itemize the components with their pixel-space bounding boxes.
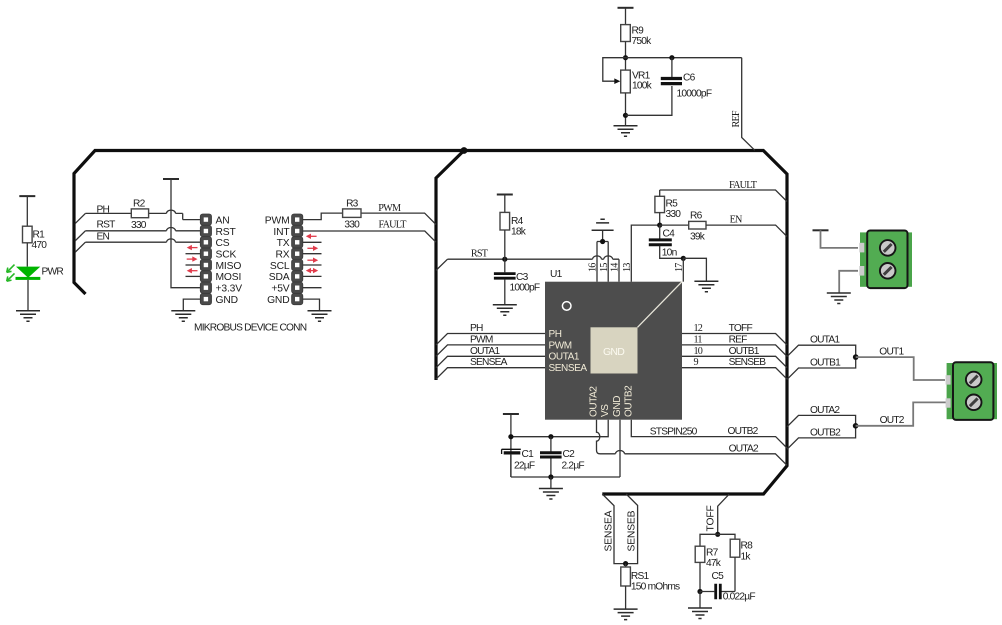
wire GND header1 [183, 299, 200, 310]
node RST R4 junction [502, 257, 507, 262]
svg-text:OUTA1: OUTA1 [549, 352, 580, 363]
wire C1 bottom [510, 454, 512, 477]
svg-text:FAULT: FAULT [729, 180, 758, 191]
svg-text:+5V: +5V [271, 284, 289, 295]
node RS1 top [623, 561, 628, 566]
wire R7 to gnd node [699, 562, 701, 591]
node bus junction [461, 147, 468, 154]
wire R1 to LED [26, 243, 28, 267]
wire OUT2 to terminal [856, 402, 946, 425]
resistor R4 [500, 212, 527, 237]
connector CN2 output terminal [946, 362, 997, 420]
arrow red SCL [307, 258, 318, 263]
wire pin9 SENSEB to bus [682, 368, 787, 379]
svg-text:16: 16 [588, 263, 599, 272]
node C2 bottom [548, 474, 553, 479]
wire hop PH over 3.3V [167, 210, 176, 213]
wire OUTB2 rail [631, 420, 787, 448]
svg-text:EN: EN [730, 214, 743, 225]
svg-text:C1: C1 [522, 449, 535, 460]
wire FAULT to R5 [659, 190, 661, 196]
svg-text:OUTB1: OUTB1 [810, 357, 841, 368]
wire node to C5 [700, 591, 735, 593]
wire TOFF to R7 [700, 534, 718, 546]
svg-text:SENSEB: SENSEB [729, 357, 767, 368]
svg-text:SCK: SCK [216, 250, 237, 261]
node pin16 pin15 tie [600, 239, 605, 244]
ground pin17 [694, 281, 718, 292]
svg-text:OUTB2: OUTB2 [810, 428, 841, 439]
wire pin11 REF to bus [682, 345, 787, 356]
wire OUTA1 to IC [436, 356, 545, 367]
ground C3 [493, 305, 517, 316]
wire 3.3V vertical [171, 179, 200, 288]
wire MISO stub [186, 264, 201, 266]
svg-text:RST: RST [97, 220, 116, 231]
connector header1 MIKROBUS left [200, 214, 242, 306]
capacitor C2 [540, 449, 584, 472]
svg-text:OUTA1: OUTA1 [810, 335, 840, 346]
svg-text:22µF: 22µF [514, 461, 535, 472]
connector CN1 supply terminal [859, 231, 912, 289]
node OUT2 [853, 423, 859, 429]
wire VIN to terminal [821, 230, 859, 248]
svg-text:0.022µF: 0.022µF [723, 592, 756, 603]
svg-text:C4: C4 [663, 229, 676, 240]
wire bus main harness [74, 151, 787, 495]
capacitor C5 [712, 571, 756, 603]
svg-text:PWM: PWM [378, 203, 401, 214]
resistor R7 [695, 546, 722, 569]
svg-text:OUTB1: OUTB1 [729, 346, 760, 357]
svg-text:R5: R5 [666, 199, 679, 210]
node REF top [623, 55, 628, 60]
wire GND header2 [303, 299, 320, 310]
svg-text:12: 12 [694, 323, 703, 334]
svg-text:470: 470 [32, 240, 48, 251]
svg-text:10n: 10n [662, 248, 677, 259]
svg-text:SCL: SCL [270, 261, 290, 272]
svg-text:TX: TX [277, 238, 290, 249]
node VR1 bottom [623, 113, 628, 118]
ground VIN terminal [827, 293, 851, 304]
ground header1 [171, 311, 195, 322]
wire OUTA2 exit [787, 415, 856, 426]
wire node to RS1 [625, 564, 627, 567]
node C6 top [669, 55, 674, 60]
wire EN from bus to header [75, 242, 200, 252]
svg-text:OUT2: OUT2 [880, 415, 905, 426]
svg-text:SDA: SDA [269, 272, 290, 283]
svg-text:SENSEA: SENSEA [549, 363, 588, 374]
svg-text:REF: REF [729, 334, 748, 345]
svg-text:MOSI: MOSI [216, 272, 242, 283]
power R9 [618, 7, 634, 9]
LED PWR [7, 265, 64, 282]
wire C4 to pin17 node [660, 246, 684, 259]
resistor R8 [730, 539, 753, 562]
ground C2 [539, 489, 563, 500]
wire FAULT from INT [303, 231, 436, 242]
wire hop RST over 3.3V [167, 228, 176, 231]
wire R7 node to gnd [699, 592, 701, 608]
svg-text:R1: R1 [33, 230, 46, 241]
resistor RS1 [621, 567, 680, 593]
power +3.3V R1 [19, 195, 35, 197]
svg-text:EN: EN [97, 232, 110, 243]
svg-text:9: 9 [694, 357, 699, 368]
wire pin17 [682, 258, 684, 281]
wire pin10 OUTB1 to bus [682, 356, 787, 367]
wire REF to bus [742, 58, 755, 151]
svg-text:OUTA1: OUTA1 [470, 346, 500, 357]
svg-text:INT: INT [273, 227, 290, 238]
power +3.3V header [163, 178, 179, 180]
svg-text:18k: 18k [511, 227, 527, 238]
wire R4 to RST [504, 230, 506, 259]
svg-text:RST: RST [471, 248, 489, 259]
svg-text:R2: R2 [133, 199, 146, 210]
wire VS rail [511, 414, 608, 477]
connector header2 MIKROBUS right [265, 214, 303, 306]
wire OUTA1 exit [787, 345, 856, 357]
svg-text:CS: CS [216, 238, 230, 249]
arrow red MOSI [187, 268, 198, 273]
svg-text:R4: R4 [511, 216, 524, 227]
ground VR1 [614, 126, 638, 137]
svg-text:C6: C6 [683, 73, 696, 84]
wire FAULT top [660, 190, 787, 202]
svg-text:100k: 100k [632, 81, 653, 92]
svg-text:R3: R3 [346, 199, 359, 210]
svg-text:14: 14 [610, 263, 621, 272]
power VIN terminal [813, 229, 829, 231]
ground R1 [16, 311, 40, 322]
svg-text:PWR: PWR [42, 267, 64, 278]
svg-text:C5: C5 [712, 571, 725, 582]
wire terminal to gnd [839, 271, 858, 293]
node C2 top [548, 434, 553, 439]
node TOFF [715, 532, 720, 537]
wire R8 to C5 [734, 557, 736, 591]
svg-text:C3: C3 [516, 272, 529, 283]
svg-text:TOFF: TOFF [706, 505, 717, 531]
wire TX stub [303, 241, 322, 243]
svg-text:330: 330 [666, 209, 682, 220]
arrow red SCK [187, 245, 198, 250]
capacitor C1 [502, 449, 535, 472]
wire R5 to junction [659, 213, 661, 226]
wire C3 to gnd [504, 279, 506, 304]
potentiometer VR1 [614, 70, 652, 93]
wire pin13 to EN junction [631, 225, 659, 282]
wire VR1 wiper loop [603, 58, 626, 81]
svg-text:10: 10 [694, 346, 703, 357]
node OUT1 [853, 354, 859, 360]
wire SCK stub [186, 253, 201, 255]
wire +5V stub [303, 287, 322, 289]
node R7 bottom [697, 589, 702, 594]
wire C2 gnd stub [550, 477, 552, 488]
resistor R3 [343, 199, 361, 231]
wire TOFF from bus [718, 494, 729, 534]
arrow red TX [306, 234, 317, 239]
svg-text:SENSEB: SENSEB [626, 510, 637, 551]
wire hop RST over pin15 [604, 256, 613, 259]
svg-text:11: 11 [694, 334, 703, 345]
svg-text:GND: GND [612, 396, 623, 417]
svg-text:PH: PH [549, 329, 562, 340]
svg-text:R6: R6 [690, 211, 703, 222]
svg-text:SENSEA: SENSEA [604, 510, 615, 551]
wire RX stub [303, 253, 322, 255]
wire SCL stub [303, 264, 322, 266]
power VS [503, 413, 519, 415]
wire pin17 to gnd [683, 258, 706, 280]
resistor R1 [23, 226, 48, 251]
svg-text:PH: PH [470, 323, 483, 334]
wire SENSEB [626, 494, 638, 564]
wire C6 bottom return [626, 86, 672, 115]
node EN junction [657, 223, 662, 228]
svg-text:1000pF: 1000pF [510, 283, 540, 294]
svg-text:330: 330 [344, 220, 360, 231]
wire junction to R6 [660, 224, 689, 226]
svg-text:U1: U1 [550, 269, 563, 280]
svg-text:OUTA2: OUTA2 [729, 443, 759, 454]
svg-text:OUTB2: OUTB2 [728, 426, 759, 437]
resistor R2 [131, 199, 149, 232]
capacitor C3 [494, 272, 540, 294]
wire pin16 pin15 to gnd tie [597, 230, 608, 282]
wire C6 top [671, 58, 673, 77]
svg-text:R8: R8 [741, 541, 754, 552]
svg-text:C2: C2 [563, 449, 576, 460]
svg-text:OUTA2: OUTA2 [589, 386, 600, 417]
resistor R5 [655, 196, 681, 220]
svg-text:TOFF: TOFF [729, 323, 753, 334]
svg-text:RST: RST [216, 227, 237, 238]
svg-text:SENSEA: SENSEA [470, 357, 508, 368]
wire LED to gnd [27, 280, 29, 310]
svg-text:+3.3V: +3.3V [216, 284, 243, 295]
svg-text:2.2µF: 2.2µF [562, 461, 585, 472]
svg-text:39k: 39k [690, 232, 706, 243]
svg-text:47k: 47k [706, 558, 722, 569]
wire hop RST over pin16 [593, 256, 602, 259]
svg-text:330: 330 [131, 220, 147, 231]
node pin17 [681, 256, 686, 261]
svg-text:10000pF: 10000pF [677, 89, 712, 100]
svg-text:PWM: PWM [470, 334, 493, 345]
IC U1 STSPIN250 body [545, 282, 682, 420]
wire RS1 to gnd [625, 586, 627, 609]
wire R6 to bus EN [706, 225, 787, 236]
wire SENSEA to IC [436, 368, 545, 379]
wire SDA stub [303, 275, 322, 277]
svg-text:150 mOhms: 150 mOhms [631, 582, 680, 593]
wire RST from bus to header [75, 231, 200, 241]
node C1 top [508, 434, 513, 439]
svg-text:STSPIN250: STSPIN250 [650, 427, 698, 438]
wire hop OUTA2 over gnd [616, 451, 625, 454]
svg-text:OUTB2: OUTB2 [623, 385, 634, 417]
wire VR1 to gnd [625, 93, 627, 125]
svg-text:REF: REF [731, 110, 742, 127]
svg-text:15: 15 [599, 263, 610, 272]
svg-text:R9: R9 [632, 26, 645, 37]
svg-text:OUTA2: OUTA2 [810, 405, 840, 416]
wire OUTB2 exit [787, 426, 856, 450]
svg-text:OUT1: OUT1 [879, 346, 904, 357]
wire PH from bus through R2 [75, 213, 200, 223]
arrow red SDA [306, 268, 318, 273]
wire PH to IC [436, 334, 545, 345]
wire OUTA2 rail [597, 420, 788, 466]
svg-text:PWM: PWM [265, 215, 290, 226]
wire PWM pin to R3 [303, 213, 436, 224]
arrow red MISO [187, 256, 198, 261]
svg-text:GND: GND [216, 295, 238, 306]
ground flipped pins 15 16 [592, 219, 614, 230]
ground RS1 [614, 609, 638, 620]
wire pwr to R9 [625, 8, 627, 25]
svg-text:RX: RX [275, 250, 289, 261]
resistor R6 [689, 211, 706, 243]
svg-text:GND: GND [267, 295, 289, 306]
wire junction to C4 [659, 225, 661, 239]
resistor R9 [621, 25, 652, 47]
wire OUT1 to terminal [856, 357, 945, 380]
svg-text:750k: 750k [632, 36, 653, 47]
svg-text:VS: VS [600, 404, 611, 417]
wire TOFF to R8 [718, 534, 735, 539]
wire R9 to node [625, 42, 627, 71]
svg-text:MIKROBUS DEVICE CONN: MIKROBUS DEVICE CONN [194, 323, 307, 334]
wire SENSEA [602, 494, 625, 564]
wire hop EN over 3.3V [167, 239, 176, 242]
power R4 [497, 194, 513, 196]
wire C2 vertical [550, 437, 552, 477]
svg-text:GND: GND [603, 346, 625, 358]
capacitor C6 [661, 73, 712, 100]
svg-text:R7: R7 [706, 548, 719, 559]
wire gnd rail bottom [511, 420, 620, 477]
ground R7 [688, 608, 712, 619]
wire OUTB1 exit [787, 357, 856, 379]
svg-text:AN: AN [216, 215, 230, 226]
arrow red RX [307, 246, 318, 251]
svg-text:PWM: PWM [549, 340, 572, 351]
svg-text:MISO: MISO [216, 261, 242, 272]
svg-text:FAULT: FAULT [379, 220, 408, 231]
wire PWM to IC [436, 345, 545, 356]
svg-text:RS1: RS1 [631, 571, 650, 582]
wire MOSI stub [186, 275, 201, 277]
wire RST to C3 [504, 259, 506, 272]
ground header2 [308, 311, 332, 322]
wire node to C6 and REF [626, 57, 742, 59]
wire RST net to pin14 [436, 259, 619, 282]
capacitor C4 [649, 229, 677, 259]
wire pin12 TOFF to bus [682, 334, 787, 345]
wire pwr to R1 [26, 196, 28, 226]
wire pwr to R4 [504, 195, 506, 213]
